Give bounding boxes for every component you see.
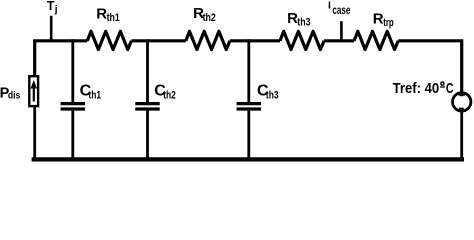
capacitor C_th3 bottom plate [237,107,261,110]
svg-text:j: j [54,5,58,16]
svg-text:R: R [373,11,384,28]
source P_dis arrow [33,86,35,102]
label P_dis [0,85,21,101]
svg-text:th1: th1 [88,89,101,101]
label R_th2 [193,5,216,24]
svg-text:dis: dis [8,90,21,101]
svg-text:th3: th3 [266,89,279,101]
label R_th3 [287,10,310,29]
wire R_th2 to R_th3 [230,39,280,42]
capacitor C_th2 wire to bottom rail [146,111,149,161]
svg-text:case: case [332,3,350,17]
resistor R_th2 [186,31,230,49]
label C_th2 [154,82,176,101]
resistor R_trp [354,31,398,49]
wire P_dis box to bottom rail [33,106,36,162]
label C_th3 [257,82,279,101]
svg-text:Tref: 40: Tref: 40 [393,81,440,97]
source Tref minus sign [459,108,464,110]
svg-text:th3: th3 [297,16,310,28]
svg-text:I: I [328,0,331,11]
resistor R_th3 [280,31,324,49]
label R_trp [373,11,394,30]
wire R_th3 to R_trp [324,39,354,42]
svg-text:T: T [47,0,55,13]
label T_j [47,0,58,16]
svg-text:th2: th2 [163,89,176,101]
capacitor C_th2 top plate [135,102,159,105]
capacitor C_th3 top plate [237,102,261,105]
label I_case [328,0,351,17]
capacitor C_th1 wire to bottom rail [71,111,74,161]
svg-text:trp: trp [383,17,394,29]
capacitor C_th3 wire to bottom rail [247,111,250,161]
wire top-left corner from P_dis up to top rail [35,41,88,77]
capacitor C_th2 wire from top rail [146,39,149,102]
capacitor C_th1 wire from top rail [71,39,74,102]
source P_dis box [29,76,38,106]
node T_j stub [50,16,53,42]
bottom rail wire [32,157,464,161]
label Tref 40 degC [393,81,454,97]
source Tref circle [453,93,471,111]
source Tref plus sign [458,93,465,95]
capacitor C_th1 bottom plate [61,107,85,110]
svg-text:th1: th1 [107,12,120,24]
wire Tref to bottom rail [460,111,463,162]
capacitor C_th2 bottom plate [135,107,159,110]
wire R_th1 to R_th2 [131,39,185,42]
svg-text:th2: th2 [203,12,216,24]
node I_case stub [340,21,343,42]
label R_th1 [96,5,119,24]
capacitor C_th1 top plate [61,102,85,105]
svg-text:C: C [446,81,454,97]
wire R_trp to top-right corner down to Tref source [398,41,461,97]
label C_th1 [80,82,101,101]
resistor R_th1 [87,31,131,49]
capacitor C_th3 wire from top rail [247,39,250,102]
